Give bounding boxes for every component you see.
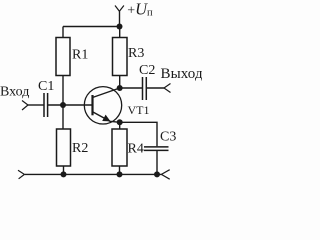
svg-text:R1: R1	[72, 48, 88, 63]
resistor R4	[112, 129, 127, 166]
svg-text:C2: C2	[139, 63, 155, 78]
svg-text:C1: C1	[38, 79, 54, 94]
transistor VT1 emitter line	[93, 112, 120, 123]
power arrow +Un	[115, 6, 124, 12]
node collector junction	[117, 85, 123, 91]
resistor R2	[57, 129, 71, 166]
wire C1 to base node	[48, 104, 93, 106]
node C3 ground junction	[154, 171, 160, 177]
wire input to C1	[28, 104, 44, 106]
svg-text:VT1: VT1	[128, 103, 150, 117]
output terminal chevron	[164, 84, 171, 93]
wire R2 bottom lead	[63, 166, 65, 174]
capacitor C1	[44, 93, 48, 117]
node R4 ground junction	[117, 171, 123, 177]
svg-text:R2: R2	[72, 141, 88, 156]
ground terminal chevron left	[18, 170, 24, 179]
svg-text:Вход: Вход	[0, 85, 29, 100]
svg-text:C3: C3	[160, 130, 176, 145]
svg-text:Выход: Выход	[161, 66, 203, 82]
transistor VT1 base bar	[91, 95, 93, 115]
node base junction	[60, 102, 66, 108]
svg-text:R4: R4	[128, 142, 144, 157]
svg-text:R3: R3	[128, 46, 144, 61]
wire R3 bottom lead	[119, 76, 121, 89]
wire R2 top lead	[62, 105, 64, 129]
transistor VT1 circle	[84, 87, 121, 124]
node emitter junction	[117, 119, 123, 125]
wire R1 top lead	[62, 27, 64, 38]
resistor R3	[113, 38, 128, 76]
resistor R1	[56, 38, 70, 76]
capacitor C2	[143, 77, 147, 100]
node R2 ground junction	[61, 171, 67, 177]
transistor VT1 emitter arrowhead	[102, 115, 110, 122]
node power junction	[117, 24, 123, 30]
input terminal chevron	[22, 101, 28, 111]
capacitor C3	[144, 147, 169, 151]
wire collector node to C2	[120, 87, 143, 89]
wire R4 top lead	[119, 122, 121, 129]
wire top rail	[63, 26, 120, 28]
wire R4 bottom lead	[119, 166, 121, 174]
wire C2 to output	[146, 87, 164, 89]
wire emitter node to C3 branch	[120, 122, 157, 146]
wire R3 top lead	[119, 27, 121, 38]
transistor VT1 collector line	[93, 88, 120, 98]
wire bottom rail	[25, 173, 162, 175]
wire R1 bottom lead	[62, 76, 64, 106]
wire power stem	[119, 11, 121, 26]
ground terminal chevron right	[161, 170, 169, 180]
wire C3 bottom lead	[156, 150, 158, 174]
